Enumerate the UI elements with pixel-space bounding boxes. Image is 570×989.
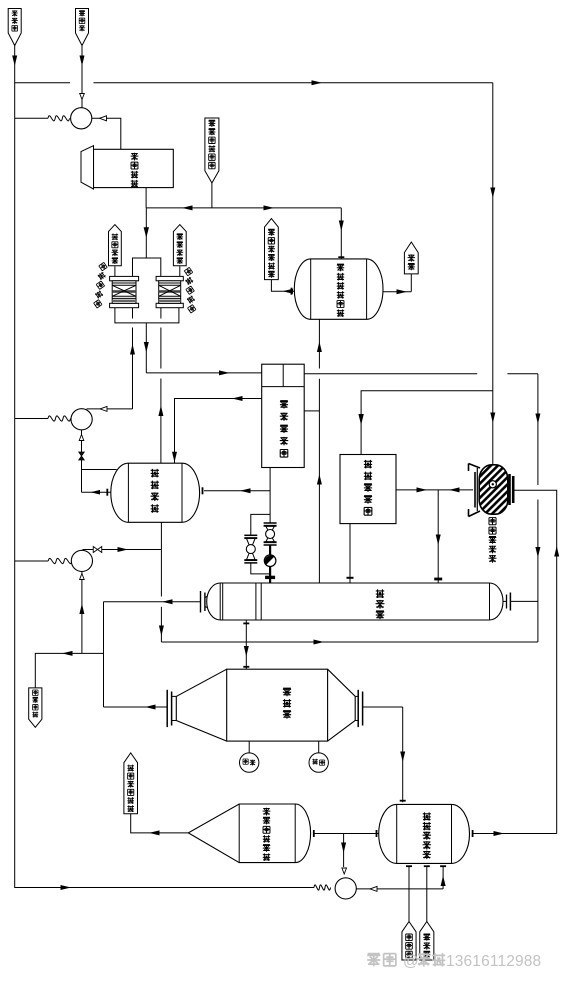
pipe: compressor riser (right vertical): [490, 83, 495, 465]
flag: to concentrate tank 浓缩液槽: [109, 225, 122, 277]
pipe: HX center outlet to vent condenser: [144, 323, 262, 376]
svg-text:@: @: [403, 953, 419, 970]
pipe: pump P3 suction leg from drain header: [79, 572, 84, 654]
label: plate HX right (diagonal): [184, 267, 196, 313]
pipe: recovery unit drawoff to pump P4: [341, 834, 346, 875]
svg-text:13616112988: 13616112988: [446, 953, 541, 970]
flag: concentrated sulfuric acid 浓硫酸: [420, 922, 434, 961]
flag: alkali/dilute-acid inlet 碱液/稀酸液: [205, 118, 219, 208]
pipe: tail-gas unit right outlet to vent: [383, 274, 411, 294]
flag: to condensate tank 冷凝水槽: [173, 225, 186, 277]
pipe: HX bottom manifold: [115, 308, 179, 323]
pipe: pump P2 suction from header: [15, 418, 48, 420]
pipe: filter right nozzle to ammonia recovery unit: [313, 830, 380, 837]
pipe: acid feed stem 1: [406, 866, 412, 922]
pipe: tail-gas unit left outlet to concentrate pool flag: [271, 280, 294, 295]
pipe: condensate tank outlet to valve set: [203, 487, 271, 494]
pipe: condenser top outlet long line: [304, 373, 538, 375]
pipe: pump P4 discharge into recovery unit bottom: [440, 866, 446, 889]
pipe: pump P3 suction from header: [15, 560, 49, 562]
pipe: pump P1 suction from header: [15, 117, 48, 119]
pipe: heat chamber left outlet run: [104, 599, 201, 604]
pipe: pump P4 side line: [356, 886, 443, 891]
pipe: condenser bottom drop / valve station inlet: [269, 468, 271, 524]
compressor: vapor compressor 蒸汽压缩机: [469, 464, 514, 517]
vessel: vent condenser 排气冷凝器: [262, 364, 305, 467]
pipe: drain collector vertical: [103, 602, 105, 707]
pipe: pump P2 suction from condensate tank: [79, 430, 117, 496]
vessel: tail gas treatment unit 尾气处理装置: [294, 259, 383, 319]
flag: reuse water inlet 回用水: [8, 9, 21, 46]
pipe: pump P3 discharge to tank-bottom riser: [83, 547, 162, 553]
pipe: bag filter to pump P1: [92, 116, 121, 150]
vessel: bag filter 袋式过滤 with feed cone: [81, 146, 173, 189]
flag: slurry well inlet 浆液井: [76, 9, 89, 46]
pipe: compressor suction from ammonia recovery unit: [515, 490, 560, 833]
pipe: steam generator bottom to heat chamber: [347, 524, 354, 583]
valve CV (control) on main letdown: [264, 545, 276, 583]
pipe: HX top manifold: [133, 258, 161, 276]
vessel: evaporation chamber 蒸发室: [167, 669, 362, 741]
pipe: branch to steam generator top: [358, 391, 493, 455]
flag: drain to concentrate pool 排至浓缩液池: [265, 219, 279, 280]
pipe: evaporator right outlet to ammonia recovery: [363, 707, 406, 802]
pipe: pump P2 discharge riser to HX-A: [87, 308, 136, 412]
heat exchanger HX-B (plate) 板式换热器: [156, 276, 183, 307]
nozzle: heat chamber left outlet with flange: [201, 591, 207, 613]
pump P1 (slurry feed pump): [48, 108, 92, 129]
pipe: evaporator feed header (horizontal): [161, 640, 538, 645]
label: plate HX left (diagonal): [94, 262, 108, 308]
label: steam compressor: [489, 518, 497, 563]
vessel: steam generator 蒸汽产生器: [340, 455, 396, 524]
pipe: recirculation riser (right): [535, 374, 540, 642]
pipe: condensate tank riser to HX-B: [158, 308, 163, 464]
pipe: condensate tank bottom drop to evaporator header: [159, 522, 164, 642]
valve V1 (globe) on main letdown: [264, 523, 277, 545]
pipe: condenser gas side riser / tail-gas line: [304, 319, 322, 583]
pipe: evaporator left drain run: [104, 705, 167, 710]
instrument: evaporator gauge 1: [240, 741, 259, 772]
pipe: steam generator outlet / compressor discharge tee: [396, 487, 473, 492]
pipe: condenser drain to condensate tank (left): [172, 396, 262, 463]
pump P2 (condensate pump): [48, 409, 92, 430]
watermark: zhihu id text: [367, 953, 541, 970]
pipe: heat chamber bottom drain: [243, 620, 249, 669]
pipe: slurry well drop to pump P1: [80, 45, 85, 107]
flag: dilute sulfuric acid 稀硫酸: [402, 922, 416, 961]
pipe: recovery unit vapor outlet to compressor line: [473, 830, 557, 837]
pipe: drain header to blowdown flag: [35, 651, 103, 688]
vessel: condensate tank 冷凝水罐: [111, 463, 200, 522]
pipe: bag filter bottom outlet: [145, 188, 147, 208]
flag: system blowdown 系统排污: [29, 688, 42, 727]
pipe: alkali header drop into tail-gas unit: [338, 208, 344, 259]
pipe: filter outlet to ammonium sulfate pool flag: [131, 814, 189, 836]
pipe: acid feed stem 2: [424, 866, 430, 922]
pipe: top distribution header to compressor riser: [15, 80, 493, 85]
pipe: alkali distribution header: [146, 205, 341, 210]
pump P3 (circulation pump): [48, 550, 92, 571]
pipe: valve bypass branch with valve V2: [244, 514, 270, 574]
vessel: ammonium sulfate filter 硫酸铵过滤器: [188, 804, 310, 863]
nozzle: heat chamber right outlet with flange: [503, 593, 510, 611]
flag: vent to atmosphere 放空: [404, 242, 418, 274]
pipe: heat chamber right outlet to recirculation riser: [510, 600, 538, 602]
pump P4 (acid circulation pump): [314, 878, 356, 899]
vessel: ammonia recovery unit 氨回收装置: [379, 804, 470, 863]
pipe: reuse water main header (left vertical + bottom run): [15, 44, 314, 890]
instrument: evaporator gauge 2: [309, 741, 328, 772]
pipe: header drop into HX manifold: [144, 208, 149, 258]
arrow on reuse water drop: [12, 56, 17, 67]
pipe: steam drop into heat chamber: [434, 490, 442, 583]
vessel: heat exchange chamber 换热室: [207, 583, 503, 620]
flag: drain to ammonium sulfate pool 排至硫酸铵池: [124, 753, 138, 814]
heat exchanger HX-A (plate) 板式换热器: [110, 276, 139, 307]
